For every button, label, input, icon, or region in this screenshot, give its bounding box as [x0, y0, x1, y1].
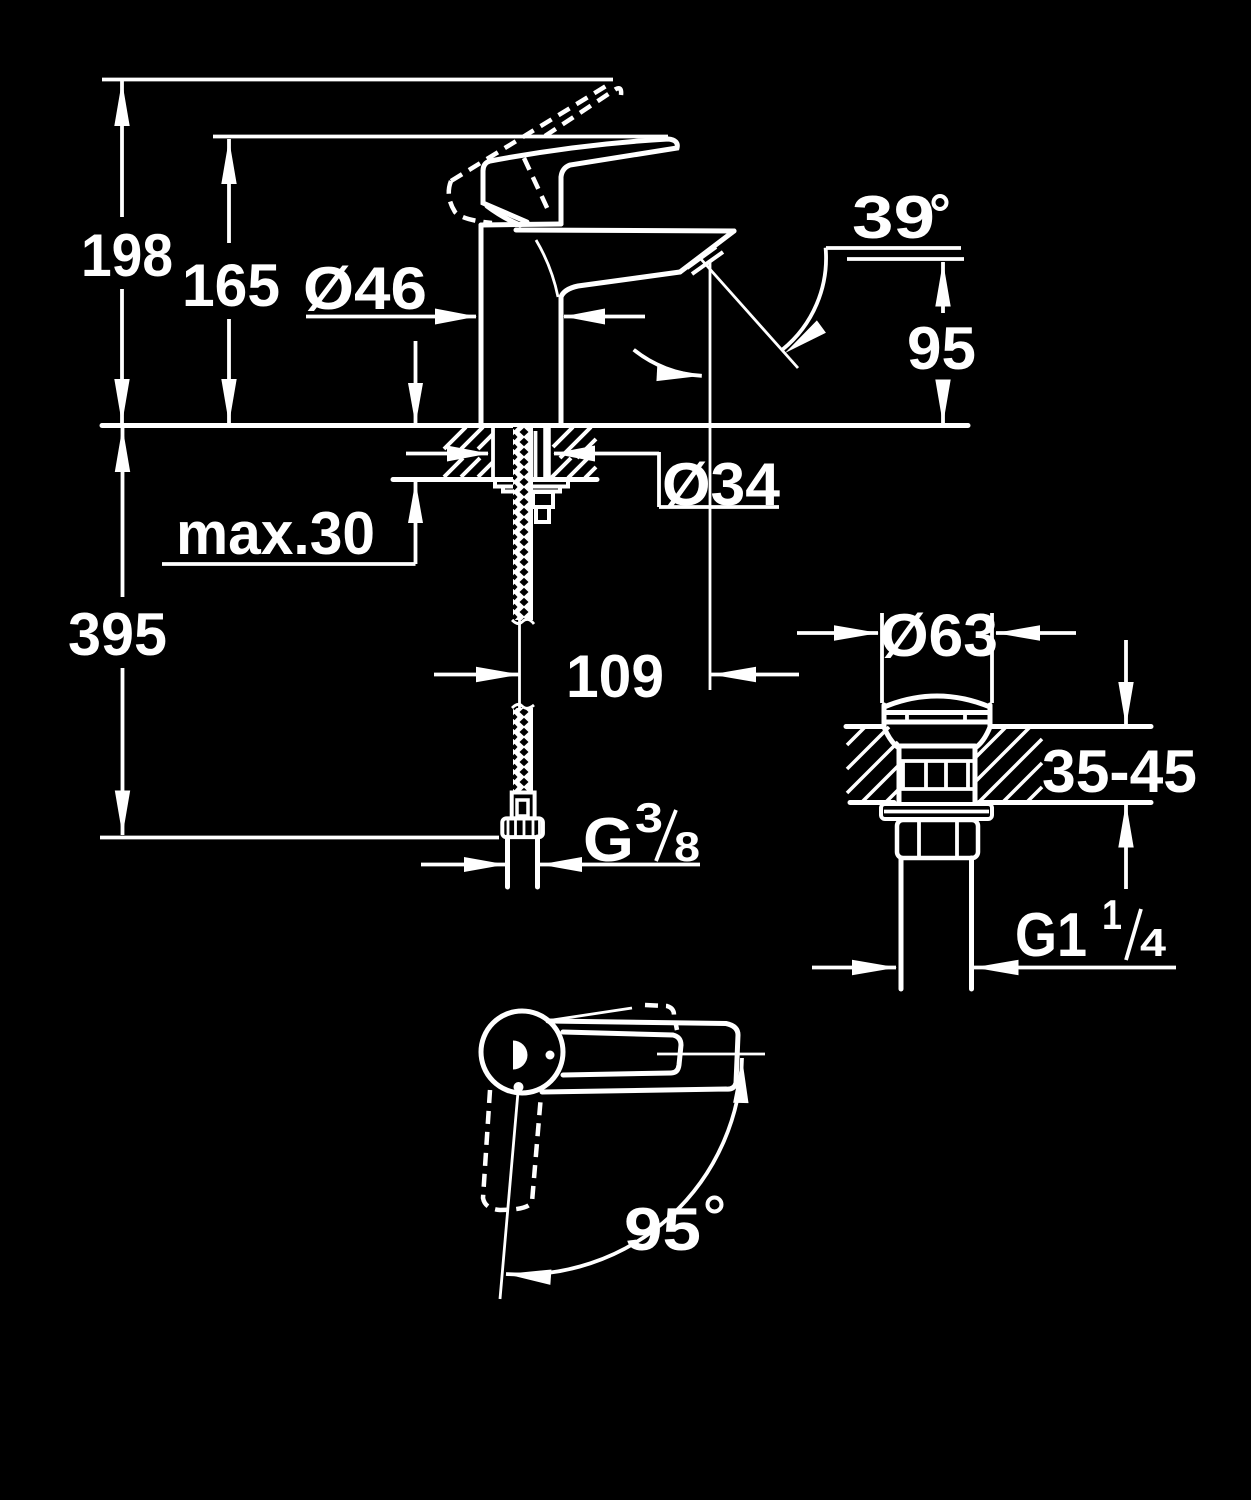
drain washer below deck — [881, 804, 992, 819]
svg-text:Ø63: Ø63 — [880, 602, 998, 669]
svg-text:G1: G1 — [1015, 901, 1087, 970]
label 198 — [81, 222, 173, 289]
bottom reference line at hose end — [100, 836, 499, 840]
dimension 198 horizontal reference line top — [102, 78, 613, 82]
label 39 degrees with reference lines — [826, 184, 964, 259]
svg-text:1: 1 — [1102, 891, 1122, 938]
handle top view ghost outline overlap — [546, 1005, 677, 1030]
label G3/8 with dimension arrows — [421, 794, 700, 875]
label 95 degrees — [624, 1196, 722, 1263]
spout aerator strokes — [687, 247, 723, 274]
countertop hatching left block — [444, 427, 493, 477]
drain valve body through deck — [884, 727, 990, 802]
hose end fitting — [512, 793, 535, 819]
label Ø46 with leader underline — [303, 255, 645, 325]
dimension 95 vertical with arrows — [935, 262, 950, 425]
drain tailpipe — [901, 858, 972, 989]
drain nut — [897, 820, 978, 858]
countertop hatching right block — [551, 427, 596, 478]
svg-text:95: 95 — [907, 315, 976, 382]
drain valve cap dome — [884, 696, 990, 726]
countertop section left view — [102, 426, 968, 480]
svg-text:4: 4 — [1140, 922, 1166, 965]
label 395 — [68, 601, 167, 668]
svg-text:95: 95 — [624, 1196, 701, 1263]
faucet lever solid outline — [483, 139, 677, 225]
hose connector pipe — [508, 837, 538, 887]
flange under countertop — [495, 480, 568, 492]
label 35-45 — [1042, 738, 1197, 805]
svg-text:Ø46: Ø46 — [303, 255, 427, 322]
svg-text:109: 109 — [566, 643, 664, 710]
svg-text:8: 8 — [674, 823, 700, 870]
svg-text:165: 165 — [182, 252, 280, 319]
faucet body and spout outline — [481, 224, 734, 424]
hose connection nut G3/8 — [502, 818, 543, 837]
handle top view cap circle — [481, 1011, 563, 1093]
label Ø63 with extension lines and arrows — [797, 602, 1076, 703]
handle centerline — [657, 1053, 765, 1056]
svg-text:3: 3 — [635, 794, 663, 841]
dimension 395 vertical with arrows — [115, 427, 130, 836]
svg-text:Ø34: Ø34 — [662, 451, 781, 518]
flexible hose braided lower segment — [512, 704, 534, 793]
svg-text:198: 198 — [81, 222, 173, 289]
dimension 198 vertical line with arrows — [114, 81, 129, 424]
dimension arrows Ø34 at countertop — [406, 446, 659, 462]
mounting nut stack under flange — [533, 492, 553, 522]
svg-text:max.30: max.30 — [176, 500, 375, 567]
label G1 1/4 with dimension arrows — [812, 891, 1176, 975]
handle ghost position dashed — [483, 1090, 541, 1210]
sink deck hatching left block — [847, 727, 898, 802]
handle top view pin marks — [513, 1041, 555, 1093]
dimension 165 horizontal reference line — [213, 135, 668, 139]
svg-text:35-45: 35-45 — [1042, 738, 1197, 805]
dimension 35-45 vertical with arrows — [1118, 640, 1133, 889]
dimension 165 vertical line with arrows — [221, 139, 236, 424]
flexible hose braided upper segment — [512, 427, 534, 709]
angle 39 extension lines from spout — [700, 258, 798, 690]
handle top view grip outline — [542, 1021, 738, 1092]
label 95 — [907, 315, 976, 382]
dimension 109 with arrows — [434, 667, 799, 682]
label Ø34 with leader — [659, 451, 781, 518]
ghost centerline extension — [500, 1092, 518, 1299]
faucet lever dashed open position — [449, 83, 621, 223]
svg-text:G: G — [583, 806, 634, 875]
svg-text:39: 39 — [852, 184, 935, 251]
label max.30 with underline and arrows — [162, 341, 423, 567]
sink deck hatching right block — [976, 727, 1042, 802]
label 165 — [182, 252, 280, 319]
label 109 — [566, 643, 664, 710]
svg-text:395: 395 — [68, 601, 167, 668]
sink deck section right view — [846, 727, 1151, 803]
angle 95 arc with arrows — [505, 1058, 749, 1285]
mounting hole edges in countertop — [493, 427, 547, 479]
angle 39 dimension arcs with arrows — [634, 248, 826, 384]
